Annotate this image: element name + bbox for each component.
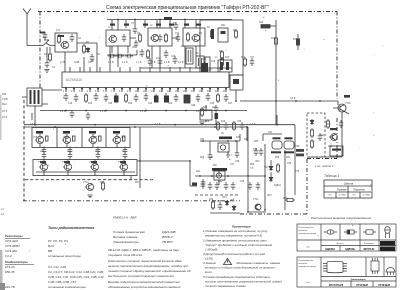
ground [44, 70, 49, 73]
svg-text:Шкала: Шкала [344, 182, 354, 186]
tone stages box row 2 [33, 160, 137, 176]
resistor R6 [210, 29, 213, 39]
svg-text:4,7 МВ: 4,7 МВ [363, 194, 370, 196]
capacitor C17 [104, 94, 109, 102]
svg-text:К50-35: К50-35 [5, 270, 15, 274]
svg-text:С10: С10 [175, 33, 180, 35]
svg-text:3,8: 3,8 [352, 194, 356, 196]
svg-text:R7: R7 [207, 27, 211, 29]
svg-text:СП3-38в: СП3-38в [5, 249, 17, 253]
coil box L2 [218, 60, 232, 72]
svg-text:полупроводников: полупроводников [299, 232, 318, 235]
svg-text:С23: С23 [168, 103, 173, 105]
capacitor C28 [70, 110, 75, 118]
band circuits box 2 [148, 28, 172, 46]
label ZCH [219, 137, 232, 140]
diode VD2 [269, 165, 273, 171]
svg-text:7: 7 [111, 91, 113, 93]
svg-text:1 Режимы измерения на постоянн: 1 Режимы измерения на постоянном, по усл… [203, 229, 268, 233]
svg-text:Вставка плавкая: Вставка плавкая [113, 235, 138, 239]
svg-text:СП3-38бМ: СП3-38бМ [5, 244, 20, 248]
svg-text:С25: С25 [210, 103, 215, 105]
capacitor C16 [94, 93, 99, 101]
svg-text:С47: С47 [230, 164, 235, 166]
svg-text:VD9: VD9 [267, 195, 272, 197]
wire [263, 134, 282, 141]
capacitor C42 [116, 54, 124, 59]
svg-text:к1: к1 [1, 207, 4, 211]
svg-text:КД503Б: КД503Б [345, 247, 355, 251]
resistor R7 [234, 29, 237, 39]
svg-text:R28: R28 [275, 157, 280, 159]
svg-text:к эл. плате 1: к эл. плате 1 [315, 164, 334, 168]
bottom-left component types table [5, 226, 105, 289]
svg-text:С1-4: С1-4 [5, 254, 12, 258]
amp box DA2b [214, 171, 225, 180]
filter drawing [363, 231, 376, 233]
resistor R31 [215, 113, 219, 119]
svg-text:КТ1: КТ1 [2, 109, 8, 113]
svg-text:ХS1: ХS1 [268, 132, 273, 134]
svg-text:КД503: КД503 [274, 185, 281, 187]
svg-text:2: 2 [71, 91, 73, 93]
svg-text:0,8 В: 0,8 В [60, 111, 66, 113]
wire top bus [107, 20, 232, 31]
capacitor C26 [206, 93, 211, 101]
svg-text:VT14: VT14 [226, 155, 232, 157]
svg-text:8: 8 [119, 91, 121, 93]
svg-text:Расположение: Расположение [299, 227, 315, 229]
svg-text:Расположение выводов полупрово: Расположение выводов полупроводников [311, 216, 371, 220]
resistor R34 [146, 49, 149, 59]
resistor R11 [296, 39, 300, 46]
wire drops [112, 20, 196, 30]
capacitor C23 [174, 94, 179, 102]
svg-text:L4: L4 [215, 57, 218, 59]
wire [22, 90, 62, 125]
capacitor C2 [90, 54, 95, 62]
capacitor C45 [208, 152, 213, 160]
resistor R36 [310, 139, 313, 149]
svg-text:4,7В: 4,7В [60, 60, 66, 64]
svg-text:VT1: VT1 [56, 30, 61, 32]
capacitor C58 [164, 50, 169, 58]
varicap box VD1 [218, 28, 228, 42]
svg-text:С17: С17 [250, 57, 255, 59]
resistor R20 [101, 181, 104, 191]
svg-text:С31: С31 [122, 151, 127, 153]
wire to audio [137, 127, 197, 188]
svg-text:VT13: VT13 [83, 182, 89, 184]
svg-text:Таблица 1: Таблица 1 [324, 174, 339, 178]
svg-text:С2: С2 [78, 38, 82, 40]
svg-text:мого.: мого. [205, 270, 213, 274]
svg-text:4,7 МВ: 4,7 МВ [339, 194, 346, 196]
svg-text:5 Схема приведенную определяет: 5 Схема приведенную определяется собстве… [203, 275, 271, 279]
warning triangle [224, 259, 232, 265]
resistor R21b [192, 183, 197, 186]
capacitor C25 [196, 94, 201, 102]
tone stages box row 1 [32, 128, 130, 148]
svg-text:R29: R29 [209, 199, 214, 201]
svg-text:С16: С16 [211, 61, 216, 63]
svg-text:С3: С3 [52, 67, 56, 69]
capacitor C44 [214, 105, 219, 113]
resistor R14 [84, 93, 87, 103]
resistor R3 [82, 44, 85, 54]
capacitor C59 [43, 32, 48, 40]
transistor TO-92 drawing [386, 268, 395, 273]
svg-text:VT6: VT6 [63, 137, 68, 139]
ceramic filter Z2 [196, 56, 204, 68]
svg-text:R41: R41 [196, 171, 201, 173]
svg-text:2,0 В: 2,0 В [250, 124, 256, 126]
resistor R17 [200, 107, 203, 117]
svg-text:С12: С12 [202, 59, 207, 61]
diode VD5 [232, 205, 236, 211]
wire A [200, 127, 247, 158]
wire [47, 47, 97, 72]
mixer wire [107, 46, 137, 55]
capacitor row under wire B [201, 181, 206, 189]
svg-text:VT11: VT11 [89, 162, 95, 164]
dash-dot boundary right upper [336, 12, 338, 100]
svg-text:R20: R20 [100, 182, 105, 184]
svg-text:тивной согласно образцу вариан: тивной согласно образцу вариантой и-феде… [108, 269, 191, 273]
svg-text:КТ4-25: КТ4-25 [5, 265, 15, 269]
capacitor C49 [208, 182, 213, 190]
IC bottom pin stubs [66, 88, 226, 93]
svg-text:L2: L2 [150, 25, 153, 27]
capacitor C15 [74, 94, 79, 102]
svg-text:С18: С18 [68, 103, 73, 105]
dash-dot boundary bottom right [240, 213, 307, 215]
long wire under IC [40, 110, 247, 112]
capacitor C54 [256, 182, 261, 190]
resistor R12 [220, 57, 223, 67]
svg-text:Z2: Z2 [196, 53, 199, 55]
volume pot box [200, 110, 212, 120]
svg-text:торцевой типа КВ-1/1А.: торцевой типа КВ-1/1А. [108, 253, 143, 257]
wire [130, 176, 132, 180]
svg-text:С35: С35 [236, 137, 241, 139]
input stage box [55, 33, 77, 52]
transistor VT6 [62, 136, 71, 143]
right tuner section box [200, 20, 243, 75]
svg-text:ХТ5: ХТ5 [295, 171, 300, 173]
ceramic filter Z1 [186, 48, 193, 64]
resistor R32 [276, 163, 279, 173]
svg-text:которых от общих тока безопасн: которых от общих тока безопасный из допу… [205, 266, 276, 270]
resistor R18 [216, 121, 219, 131]
resistor R2 [57, 34, 60, 44]
wire in box [36, 171, 135, 173]
svg-text:С30: С30 [95, 151, 100, 153]
svg-text:точной современных схемах.: точной современных схемах. [205, 284, 247, 288]
capacitor C27 [224, 94, 229, 102]
speaker connector box [330, 146, 343, 156]
svg-text:ВчО: ВчО [48, 244, 54, 248]
svg-text:1 МОм/В.: 1 МОм/В. [205, 248, 218, 252]
svg-text:Примечания: Примечания [232, 225, 251, 229]
transistor VT2 [108, 35, 117, 42]
capacitor C61 [339, 120, 344, 128]
svg-text:К174ХА10: К174ХА10 [66, 78, 82, 82]
pinout table B [297, 257, 396, 287]
svg-text:К10-7В: К10-7В [5, 285, 15, 289]
IC top pin stubs [70, 67, 220, 72]
svg-text:6: 6 [103, 91, 105, 93]
capacitor C3 [45, 60, 50, 68]
wire [140, 67, 232, 69]
svg-text:С1, С4-С7, СВ-С12, С14, С1В-С2: С1, С4-С7, СВ-С12, С14, С1В-С21, С2В, [48, 270, 104, 274]
capacitor C56 [158, 34, 163, 42]
svg-text:4: 4 [87, 91, 89, 93]
capacitor C47 [254, 148, 259, 156]
svg-text:С5: С5 [91, 61, 95, 63]
capacitor C10 [158, 58, 163, 66]
capacitor C20 [144, 93, 149, 101]
IC DA1 [62, 72, 229, 88]
capacitor C41 [108, 54, 116, 59]
component reference labels [30, 22, 351, 203]
svg-text:С13: С13 [146, 58, 151, 60]
resistor R9 [261, 25, 270, 28]
svg-text:VT10: VT10 [62, 162, 68, 164]
band circuits box 1 [106, 30, 130, 46]
svg-text:КТ361БМ: КТ361БМ [378, 283, 390, 287]
transistor VT1 [60, 41, 69, 48]
svg-text:обозначенными устройств минима: обозначенными устройств минимальной свед… [108, 285, 181, 289]
capacitor C12 (electrolytic) [205, 57, 210, 70]
svg-text:ТВ-ВТО: ТВ-ВТО [162, 240, 173, 244]
pin junction dots [65, 88, 227, 90]
svg-text:СВ: СВ [2, 92, 6, 96]
capacitor C8 [203, 61, 208, 69]
svg-text:Вкл: Вкл [2, 102, 7, 106]
transistor VT18 [331, 134, 338, 141]
capacitor C46 [235, 150, 240, 158]
svg-text:ностью изготовителя, разрешая: ностью изготовителя, разрешая технологий… [205, 280, 282, 284]
svg-text:4 Знаком: 4 Знаком [203, 261, 216, 265]
diode VD3 [269, 176, 273, 182]
svg-text:СП3-3вМ: СП3-3вМ [5, 239, 18, 243]
svg-text:Трансформаторы: Трансформаторы [113, 240, 140, 244]
svg-text:L1: L1 [108, 27, 111, 29]
electrolytic C24 [184, 95, 190, 103]
svg-text:выводов: выводов [299, 229, 308, 232]
switch SA1 [43, 40, 55, 46]
scan smudges [0, 95, 5, 290]
svg-text:к2: к2 [1, 212, 4, 216]
ground [199, 122, 204, 125]
resistor R15 [124, 93, 127, 103]
svg-text:ВА1: ВА1 [320, 134, 325, 137]
capacitor C31 [240, 122, 245, 130]
capacitor C14 [64, 93, 69, 101]
transistor VT4 [191, 34, 200, 41]
notes block [202, 225, 282, 289]
wire [270, 20, 276, 125]
transistor VT12 [119, 163, 128, 170]
svg-text:ЗЧ: ЗЧ [221, 133, 224, 135]
svg-text:R15: R15 [88, 103, 93, 105]
svg-text:R21: R21 [135, 182, 140, 184]
svg-text:R12: R12 [293, 39, 298, 41]
output transistor VT16 [338, 104, 346, 112]
capacitor C1 [70, 34, 75, 42]
capacitor C53 [248, 182, 253, 190]
svg-text:С26: С26 [237, 121, 242, 123]
svg-text:С6: С6 [88, 60, 92, 64]
scan noise [29, 15, 383, 274]
IC2 drawing [371, 261, 379, 271]
svg-text:С7: С7 [131, 23, 135, 25]
svg-text:Диоды: Диоды [336, 242, 344, 245]
dash-dot boundary left [39, 12, 41, 89]
dash-dot boundary right mid [336, 118, 338, 158]
svg-text:С51: С51 [286, 157, 291, 159]
svg-text:3 Допустимое отклонение рабочи: 3 Допустимое отклонение рабочих усл-вий [203, 252, 265, 256]
capacitor C37 [218, 202, 223, 210]
svg-text:С38: С38 [287, 163, 292, 165]
svg-text:КД209А: КД209А [325, 247, 335, 251]
svg-text:С20: С20 [108, 103, 113, 105]
svg-text:С2В, С31, С32, С33-С35, С34, С: С2В, С31, С32, С33-С35, С34, С3В, С42, [48, 275, 105, 279]
svg-text:С15: С15 [171, 56, 176, 58]
svg-text:77к: 77к [250, 168, 255, 170]
detector dashed box [307, 113, 325, 157]
svg-text:С22: С22 [148, 103, 153, 105]
svg-text:УКВ: УКВ [2, 97, 8, 101]
svg-text:VT21: VT21 [253, 199, 259, 201]
svg-text:КР174УН23: КР174УН23 [329, 283, 344, 287]
svg-text:1: 1 [63, 91, 65, 93]
svg-text:Схема электрическая принципи: Схема электрическая принципиальная прием… [106, 4, 269, 11]
svg-text:ВП2Б-3: ВП2Б-3 [162, 235, 173, 239]
capacitor C52 [231, 182, 236, 190]
svg-text:Резисторы: Резисторы [5, 234, 23, 238]
svg-text:R19: R19 [221, 121, 226, 123]
svg-text:VT7: VT7 [93, 137, 98, 139]
vertical rails [265, 144, 295, 210]
capacitor C4 [133, 26, 138, 34]
svg-text:С33: С33 [200, 139, 205, 141]
resistor R10 [274, 36, 277, 46]
resistor R37 [326, 119, 329, 129]
svg-text:0,8 В: 0,8 В [30, 124, 36, 126]
transistor VT10 [63, 163, 72, 170]
wire B [195, 171, 265, 185]
svg-text:5: 5 [95, 91, 97, 93]
svg-text:2,4 В: 2,4 В [196, 111, 202, 113]
capacitor C22 [164, 93, 169, 101]
pinout table A [297, 224, 396, 251]
svg-text:С14: С14 [156, 58, 161, 60]
svg-text:VT5: VT5 [33, 137, 38, 139]
dash-dot boundary lower-left vertical [24, 100, 155, 201]
transistor VT14 [220, 145, 225, 150]
svg-text:Расположение: Расположение [299, 260, 315, 262]
svg-text:С4В, С4В, С5В, С5У: С4В, С4В, С5В, С5У [48, 280, 77, 284]
svg-text:Компоненты согласно переключен: Компоненты согласно переключений каторие… [108, 259, 182, 263]
svg-text:R60: R60 [283, 198, 288, 200]
svg-text:Типы радиокомпонентов: Типы радиокомпонентов [48, 226, 95, 230]
ground [87, 195, 92, 198]
wire [248, 211, 266, 213]
svg-text:Тип: Тип [306, 247, 310, 249]
svg-text:остальные конденсаторы: остальные конденсаторы [48, 285, 87, 289]
resistor R33 [285, 198, 295, 201]
resistor R8 [220, 50, 223, 60]
inductor L1 [164, 33, 167, 43]
diode drawing 1 [324, 231, 337, 233]
middle bottom text [108, 216, 191, 290]
svg-text:R3: R3 [97, 54, 101, 56]
svg-text:КТ2: КТ2 [2, 115, 8, 119]
svg-text:С34: С34 [209, 157, 214, 159]
svg-text:R6: R6 [199, 33, 203, 35]
svg-text:С39: С39 [217, 201, 222, 203]
transistor VT3 [150, 34, 159, 41]
diode VD4 [225, 200, 229, 206]
resistor R4 [138, 33, 141, 43]
svg-text:ПМ003.2-6 - ВБР: ПМ003.2-6 - ВБР [113, 216, 136, 220]
svg-text:±15%.: ±15%. [205, 257, 214, 261]
transistor VT15 [216, 173, 221, 178]
svg-text:выводов: выводов [299, 262, 308, 265]
svg-text:С29: С29 [67, 151, 72, 153]
IC package drawing [327, 261, 343, 273]
svg-text:Выводы подключения переключате: Выводы подключения переключателей совмес… [108, 280, 180, 284]
svg-text:1,2 В: 1,2 В [100, 111, 106, 113]
transistor VT17 [255, 204, 261, 210]
svg-text:VT8: VT8 [121, 137, 126, 139]
capacitor C21 [154, 94, 159, 102]
svg-text:0,3В: 0,3В [74, 60, 80, 64]
svg-text:R16: R16 [128, 103, 133, 105]
connector XP1 [272, 141, 282, 149]
transistor VT11 [90, 163, 99, 170]
svg-text:0,5 В: 0,5 В [290, 98, 296, 100]
interstage capacitors [42, 147, 47, 155]
wire [77, 43, 97, 60]
wire [210, 212, 240, 214]
capacitor C50 [215, 182, 220, 190]
capacitor C51 [224, 182, 229, 190]
capacitor C11 [173, 56, 178, 64]
capacitor C19 [134, 94, 139, 102]
svg-text:С8: С8 [132, 47, 136, 49]
svg-text:КТ315БМ: КТ315БМ [356, 283, 368, 287]
capacitor C55 [122, 34, 127, 42]
transistor VT8 [112, 136, 121, 143]
capacitor C32b [201, 179, 206, 187]
capacitor C29 [86, 112, 91, 120]
wire [308, 156, 342, 158]
diode VD6 [310, 119, 314, 125]
svg-text:R56: R56 [250, 164, 255, 166]
svg-text:"Корпус" прибором с входным со: "Корпус" прибором с входным сопротивлени… [205, 243, 272, 247]
svg-text:R13: R13 [225, 57, 230, 59]
capacitor C13 [250, 58, 255, 66]
table 1 [324, 180, 372, 198]
svg-text:VD2: VD2 [255, 161, 260, 163]
svg-text:0,4 В: 0,4 В [178, 62, 184, 64]
svg-text:Фильтры: Фильтры [364, 242, 374, 245]
dash-dot boundary jog [307, 158, 337, 160]
svg-text:ФП1П-61: ФП1П-61 [364, 247, 376, 251]
